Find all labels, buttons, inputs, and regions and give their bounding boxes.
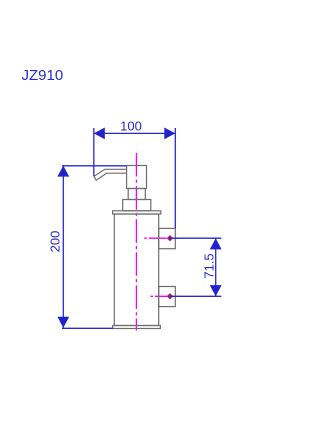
dimension 100: left arrow (94, 128, 105, 140)
dimension 200: bottom arrow (57, 317, 69, 328)
spout (gray bent tube) (94, 169, 127, 180)
svg-text:71.5: 71.5 (202, 253, 217, 278)
dimension 100: right arrow (164, 128, 175, 140)
base rim (113, 326, 161, 329)
centerline bracket 1 (magenta) (144, 237, 178, 239)
dimension 200: top arrow (57, 166, 69, 177)
dimension 200: extension line bottom (62, 327, 113, 329)
centerline vertical (magenta) (135, 153, 137, 331)
dimension 200: dim line (62, 166, 64, 328)
lid flange (113, 211, 161, 214)
dimension 71.5: extension line bottom (172, 295, 222, 297)
dimension 100: dim line (94, 132, 176, 134)
dimension 200: extension line top (62, 165, 127, 167)
svg-text:100: 100 (120, 119, 142, 134)
body cylinder (114, 214, 158, 326)
screw hole dot 1 (167, 235, 173, 241)
svg-text:200: 200 (48, 231, 63, 253)
screw hole dot 2 (167, 294, 173, 300)
dimension 71.5: extension line top (172, 237, 222, 239)
svg-text:JZ910: JZ910 (22, 67, 64, 84)
dimension 71.5: dim line (215, 238, 217, 296)
dimension 100: extension line right (174, 128, 176, 228)
dimension 71.5: top arrow (210, 238, 222, 249)
pump neck (128, 189, 145, 200)
pump head (127, 166, 147, 189)
mounting bracket 1 (159, 228, 176, 248)
dimension 100: extension line left (93, 128, 95, 176)
mounting bracket 2 (159, 287, 176, 307)
dimension 71.5: bottom arrow (210, 285, 222, 296)
pump collar (123, 200, 151, 211)
centerline bracket 2 (magenta) (151, 295, 179, 297)
part outlines (gray) (113, 166, 176, 329)
part white fills (113, 166, 176, 329)
